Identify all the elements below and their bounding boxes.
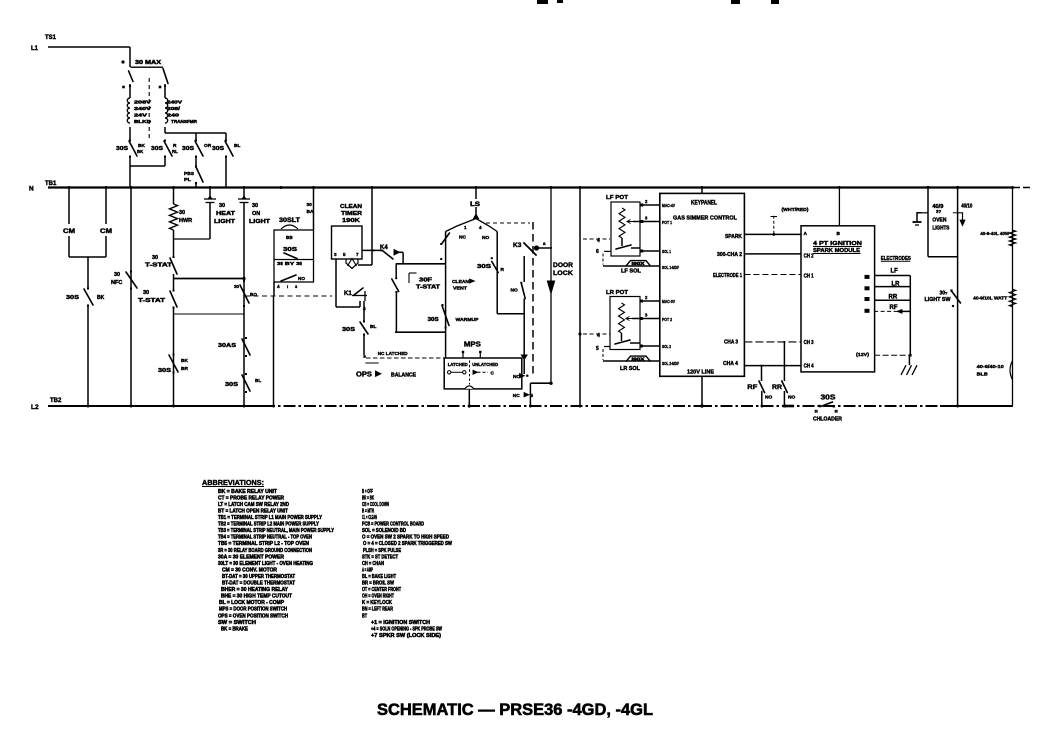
svg-text:UNLATCHED: UNLATCHED bbox=[472, 362, 499, 367]
svg-text:CHLOADER: CHLOADER bbox=[813, 417, 842, 423]
svg-text:TB3 = TERMINAL STRIP NEUTRAL,: TB3 = TERMINAL STRIP NEUTRAL, MAIN POWER… bbox=[218, 528, 334, 534]
svg-text:+7 SPKR SW (LOCK SIDE): +7 SPKR SW (LOCK SIDE) bbox=[371, 633, 441, 639]
svg-text:CM: CM bbox=[100, 229, 112, 235]
svg-text:CB = COOL DOWN: CB = COOL DOWN bbox=[362, 502, 389, 508]
svg-text:NO: NO bbox=[788, 395, 795, 401]
svg-text:OPS = OVEN POSITION SWITCH: OPS = OVEN POSITION SWITCH bbox=[218, 613, 288, 619]
svg-text:30S: 30S bbox=[428, 317, 440, 323]
svg-text:LIGHTS: LIGHTS bbox=[932, 226, 950, 232]
svg-text:40-9-40L 40W: 40-9-40L 40W bbox=[980, 231, 1009, 237]
svg-text:SOL 1-MDF: SOL 1-MDF bbox=[662, 265, 679, 270]
svg-text:5: 5 bbox=[596, 346, 599, 352]
svg-text:6: 6 bbox=[596, 249, 599, 255]
svg-text:LF: LF bbox=[891, 269, 899, 275]
svg-text:LS: LS bbox=[470, 202, 480, 208]
svg-text:DOOR: DOOR bbox=[553, 262, 573, 269]
svg-text:MPS = DOOR POSITION SWITCH: MPS = DOOR POSITION SWITCH bbox=[219, 607, 287, 613]
svg-text:BB: BB bbox=[286, 235, 293, 240]
svg-text:LATCHED: LATCHED bbox=[448, 362, 469, 367]
svg-text:BK: BK bbox=[181, 358, 188, 364]
svg-text:SW = SWITCH: SW = SWITCH bbox=[218, 620, 256, 626]
svg-text:CM: CM bbox=[63, 229, 75, 235]
svg-text:CH 4: CH 4 bbox=[804, 364, 814, 370]
svg-text:B = MTR: B = MTR bbox=[362, 508, 374, 514]
svg-text:PBS: PBS bbox=[184, 171, 194, 176]
svg-text:I90X: I90X bbox=[632, 261, 645, 266]
svg-text:30S: 30S bbox=[283, 247, 297, 253]
svg-text:NO: NO bbox=[482, 235, 489, 241]
svg-text:5: 5 bbox=[343, 252, 346, 257]
svg-text:CH 3: CH 3 bbox=[804, 340, 814, 346]
svg-text:BT-DAT = DOUBLE THERMOSTAT: BT-DAT = DOUBLE THERMOSTAT bbox=[222, 581, 296, 587]
svg-text:1: 1 bbox=[464, 225, 467, 230]
svg-text:4: 4 bbox=[479, 225, 482, 230]
svg-text:RF: RF bbox=[747, 384, 757, 391]
svg-text:30: 30 bbox=[152, 255, 158, 261]
svg-text:3I BY 3I: 3I BY 3I bbox=[277, 261, 302, 266]
svg-text:30S: 30S bbox=[151, 146, 163, 152]
svg-text:LOCK: LOCK bbox=[553, 270, 573, 277]
svg-text:LF SOL: LF SOL bbox=[621, 269, 642, 275]
svg-text:BL: BL bbox=[255, 378, 261, 383]
svg-text:BT: BT bbox=[362, 613, 368, 619]
svg-text:(WHT/RED): (WHT/RED) bbox=[782, 207, 810, 212]
svg-text:BL: BL bbox=[234, 143, 240, 149]
svg-text:OR: OR bbox=[204, 143, 212, 149]
svg-text:LR SOL: LR SOL bbox=[620, 366, 641, 372]
svg-text:3I: 3I bbox=[835, 410, 838, 414]
svg-text:TB2: TB2 bbox=[50, 398, 62, 404]
svg-text:LIGHT: LIGHT bbox=[214, 219, 236, 225]
svg-text:L1: L1 bbox=[31, 46, 39, 52]
svg-text:CH = CHAN: CH = CHAN bbox=[362, 561, 384, 567]
svg-text:STK = ST DETECT: STK = ST DETECT bbox=[362, 554, 399, 560]
svg-text:A: A bbox=[804, 231, 808, 237]
svg-text:HWR: HWR bbox=[179, 218, 192, 224]
svg-text:K1: K1 bbox=[344, 291, 352, 297]
svg-text:NO: NO bbox=[298, 276, 305, 281]
svg-text:WARMUP: WARMUP bbox=[456, 317, 480, 323]
svg-text:BA: BA bbox=[307, 209, 314, 215]
svg-text:BR = BROIL SW: BR = BROIL SW bbox=[362, 581, 394, 587]
svg-text:OH = OVEN RIGHT: OH = OVEN RIGHT bbox=[362, 594, 395, 600]
svg-text:LIGHT SW: LIGHT SW bbox=[925, 297, 951, 303]
svg-text:B: B bbox=[837, 231, 841, 237]
svg-text:30S: 30S bbox=[182, 146, 194, 152]
svg-text:SOL 2: SOL 2 bbox=[662, 344, 671, 349]
svg-text:ON: ON bbox=[252, 211, 260, 217]
svg-text:NO: NO bbox=[511, 287, 518, 293]
svg-text:LIGHT: LIGHT bbox=[249, 219, 271, 225]
svg-text:+1 = IGNITION SWITCH: +1 = IGNITION SWITCH bbox=[371, 620, 430, 626]
svg-text:NC: NC bbox=[459, 235, 466, 241]
svg-text:SOL 2-MDF: SOL 2-MDF bbox=[662, 361, 679, 366]
svg-text:OT = CENTER FRONT: OT = CENTER FRONT bbox=[362, 587, 402, 593]
svg-text:30: 30 bbox=[179, 210, 185, 216]
svg-text:40/10: 40/10 bbox=[961, 204, 972, 210]
svg-text:30S: 30S bbox=[477, 264, 492, 270]
svg-text:TB4 = TERMINAL STRIP NEUTRAL -: TB4 = TERMINAL STRIP NEUTRAL - TOP OVEN bbox=[218, 535, 312, 541]
svg-text:30: 30 bbox=[219, 203, 225, 209]
svg-text:A = AMP: A = AMP bbox=[362, 567, 373, 573]
svg-text:+4 = SOLN OPENING - SPK PROBE: +4 = SOLN OPENING - SPK PROBE SW bbox=[371, 626, 442, 632]
svg-text:LT = LATCH CAM SW RELAY 2ND: LT = LATCH CAM SW RELAY 2ND bbox=[218, 502, 289, 508]
svg-text:POT 1: POT 1 bbox=[662, 220, 672, 225]
svg-text:30LT = 30 ELEMENT LIGHT - OVEN: 30LT = 30 ELEMENT LIGHT - OVEN HEATING bbox=[218, 561, 313, 567]
svg-text:3?: 3? bbox=[936, 209, 941, 214]
svg-text:CL = CLEAN: CL = CLEAN bbox=[362, 515, 377, 521]
svg-text:120V LINE: 120V LINE bbox=[687, 370, 714, 376]
svg-text:BHE = 30 HIGH TEMP CUTOUT: BHE = 30 HIGH TEMP CUTOUT bbox=[221, 594, 293, 600]
svg-text:40-9/10L WATT: 40-9/10L WATT bbox=[973, 296, 1007, 302]
svg-text:ELECTRODE 1: ELECTRODE 1 bbox=[713, 273, 742, 279]
svg-text:N: N bbox=[29, 186, 34, 193]
svg-text:40-9/40-10: 40-9/40-10 bbox=[977, 364, 1004, 370]
svg-text:NC LATCHED: NC LATCHED bbox=[378, 351, 409, 357]
svg-text:SOL 1: SOL 1 bbox=[662, 249, 671, 254]
svg-text:VENT: VENT bbox=[453, 286, 467, 292]
svg-text:BT = LATCH OPEN RELAY UNIT: BT = LATCH OPEN RELAY UNIT bbox=[218, 508, 289, 514]
svg-text:TB1: TB1 bbox=[45, 181, 57, 187]
svg-text:CHA 4: CHA 4 bbox=[723, 361, 738, 367]
svg-text:K3: K3 bbox=[513, 242, 522, 249]
svg-text:CH 2: CH 2 bbox=[804, 254, 814, 260]
svg-text:30: 30 bbox=[234, 284, 240, 289]
svg-text:BL = BAKE LIGHT: BL = BAKE LIGHT bbox=[362, 574, 397, 580]
svg-text:PLSH = SPK PULSE: PLSH = SPK PULSE bbox=[363, 548, 401, 554]
svg-text:24V: 24V bbox=[134, 113, 148, 118]
svg-text:CH 1: CH 1 bbox=[804, 274, 814, 280]
svg-text:RL: RL bbox=[172, 149, 178, 154]
svg-text:BK = BRAKE: BK = BRAKE bbox=[221, 626, 248, 632]
svg-text:BL = LOCK MOTOR - COMP: BL = LOCK MOTOR - COMP bbox=[219, 600, 284, 606]
svg-text:7: 7 bbox=[356, 252, 359, 257]
svg-text:30S: 30S bbox=[158, 368, 171, 374]
svg-text:30AS: 30AS bbox=[218, 343, 236, 349]
svg-text:30S: 30S bbox=[225, 382, 238, 388]
svg-text:30S: 30S bbox=[212, 146, 224, 152]
svg-text:30S: 30S bbox=[116, 146, 128, 152]
svg-text:T-STAT: T-STAT bbox=[416, 285, 441, 291]
svg-text:BALANCE: BALANCE bbox=[391, 372, 417, 378]
svg-text:30: 30 bbox=[143, 290, 149, 296]
svg-text:3R = 30 RELAY BOARD GROUND CON: 3R = 30 RELAY BOARD GROUND CONNECTION bbox=[218, 548, 312, 554]
svg-text:K = KEYLOCK: K = KEYLOCK bbox=[362, 600, 392, 606]
svg-text:BHER = 30 HEATING RELAY: BHER = 30 HEATING RELAY bbox=[221, 587, 288, 593]
svg-text:HEAT: HEAT bbox=[216, 211, 236, 217]
svg-text:CT = PROBE RELAY POWER: CT = PROBE RELAY POWER bbox=[218, 495, 284, 501]
svg-text:MAC-4V: MAC-4V bbox=[662, 203, 676, 208]
svg-text:30: 30 bbox=[252, 203, 258, 209]
svg-text:CM = 30 CONV. MOTOR: CM = 30 CONV. MOTOR bbox=[222, 567, 277, 573]
svg-text:MPS: MPS bbox=[464, 342, 481, 349]
svg-text:208/: 208/ bbox=[167, 106, 181, 111]
svg-text:ABBREVIATIONS:: ABBREVIATIONS: bbox=[202, 478, 264, 487]
svg-text:OPS: OPS bbox=[356, 372, 372, 379]
svg-text:30: 30 bbox=[114, 272, 120, 278]
svg-text:LR POT: LR POT bbox=[606, 290, 629, 296]
svg-text:SCHEMATIC — PRSE36 -4GD, -4GL: SCHEMATIC — PRSE36 -4GD, -4GL bbox=[377, 700, 653, 719]
svg-text:TB5 = TERMINAL STRIP L2 - TOP: TB5 = TERMINAL STRIP L2 - TOP OVEN bbox=[218, 541, 309, 547]
svg-text:O = 4 = CLOSED 2 SPARK TRIGGER: O = 4 = CLOSED 2 SPARK TRIGGERED SW bbox=[363, 541, 452, 547]
svg-text:30: 30 bbox=[307, 202, 313, 208]
svg-text:30SLT: 30SLT bbox=[279, 218, 300, 224]
svg-text:TS1: TS1 bbox=[45, 35, 57, 41]
svg-text:O = OVEN SW 2 SPARK TO HIGH SP: O = OVEN SW 2 SPARK TO HIGH SPEED bbox=[362, 535, 449, 541]
svg-text:T-STAT: T-STAT bbox=[138, 298, 166, 304]
svg-text:BK: BK bbox=[137, 149, 144, 154]
svg-text:LF POT: LF POT bbox=[606, 195, 629, 201]
svg-text:GAS SIMMER CONTROL: GAS SIMMER CONTROL bbox=[673, 216, 737, 222]
svg-text:TB1 = TERMINAL STRIP L1 MAIN P: TB1 = TERMINAL STRIP L1 MAIN POWER SUPPL… bbox=[218, 515, 322, 521]
svg-text:BR: BR bbox=[181, 366, 188, 372]
svg-text:3: 3 bbox=[334, 252, 337, 257]
svg-text:BLB: BLB bbox=[977, 372, 989, 378]
svg-text:NO: NO bbox=[765, 395, 772, 401]
svg-text:R: R bbox=[501, 267, 505, 273]
svg-text:B = OFF: B = OFF bbox=[362, 489, 373, 495]
svg-text:RF: RF bbox=[890, 305, 898, 311]
svg-text:T-STAT: T-STAT bbox=[145, 263, 173, 269]
svg-text:OVEN: OVEN bbox=[932, 218, 946, 224]
svg-text:BT-DAT = 30 UPPER THERMOSTAT: BT-DAT = 30 UPPER THERMOSTAT bbox=[222, 574, 296, 580]
svg-text:L2: L2 bbox=[31, 404, 39, 411]
svg-text:I: I bbox=[287, 284, 288, 289]
svg-text:30A = 30 ELEMENT POWER: 30A = 30 ELEMENT POWER bbox=[218, 554, 284, 560]
svg-text:SPARK: SPARK bbox=[725, 234, 742, 240]
svg-text:PL: PL bbox=[184, 177, 191, 182]
svg-text:BL: BL bbox=[370, 324, 376, 330]
svg-text:KEYPANEL: KEYPANEL bbox=[691, 201, 717, 207]
svg-text:SOL = SOLENOID BD: SOL = SOLENOID BD bbox=[362, 528, 406, 534]
svg-text:BK = BAKE RELAY UNIT: BK = BAKE RELAY UNIT bbox=[218, 489, 278, 495]
svg-text:3I: 3I bbox=[815, 410, 818, 414]
svg-text:240V: 240V bbox=[167, 100, 183, 105]
svg-text:30S: 30S bbox=[342, 327, 355, 333]
svg-text:30S: 30S bbox=[821, 395, 836, 402]
svg-text:300-CHA 2: 300-CHA 2 bbox=[717, 252, 742, 258]
svg-text:BR = BK: BR = BK bbox=[362, 495, 374, 501]
svg-text:CLEAN: CLEAN bbox=[340, 204, 362, 210]
svg-text:4: 4 bbox=[277, 284, 280, 289]
svg-text:CHA 3: CHA 3 bbox=[724, 340, 738, 346]
svg-text:RR: RR bbox=[772, 384, 782, 391]
svg-text:190K: 190K bbox=[342, 218, 360, 224]
svg-text:NC: NC bbox=[513, 393, 520, 399]
svg-text:TIMER: TIMER bbox=[341, 211, 362, 217]
svg-text:PCB = POWER CONTROL BOARD: PCB = POWER CONTROL BOARD bbox=[362, 522, 424, 528]
svg-text:TB2 = TERMINAL STRIP L2 MAIN P: TB2 = TERMINAL STRIP L2 MAIN POWER SUPPL… bbox=[218, 522, 319, 528]
svg-text:MAC-3V: MAC-3V bbox=[662, 299, 676, 304]
svg-text:NFC: NFC bbox=[111, 280, 122, 286]
svg-text:CLEAN: CLEAN bbox=[452, 279, 470, 285]
svg-text:BK: BK bbox=[97, 295, 105, 301]
svg-text:I90X: I90X bbox=[632, 357, 645, 362]
svg-text:240: 240 bbox=[167, 113, 180, 118]
svg-text:POT 2: POT 2 bbox=[662, 317, 672, 322]
svg-text:30F: 30F bbox=[419, 278, 432, 284]
svg-text:TRANSFMR: TRANSFMR bbox=[171, 119, 198, 124]
svg-text:30 MAX: 30 MAX bbox=[135, 60, 161, 66]
svg-text:BN = LEFT REAR: BN = LEFT REAR bbox=[362, 607, 393, 613]
svg-text:(12V): (12V) bbox=[856, 352, 870, 357]
svg-text:30S: 30S bbox=[66, 295, 79, 301]
